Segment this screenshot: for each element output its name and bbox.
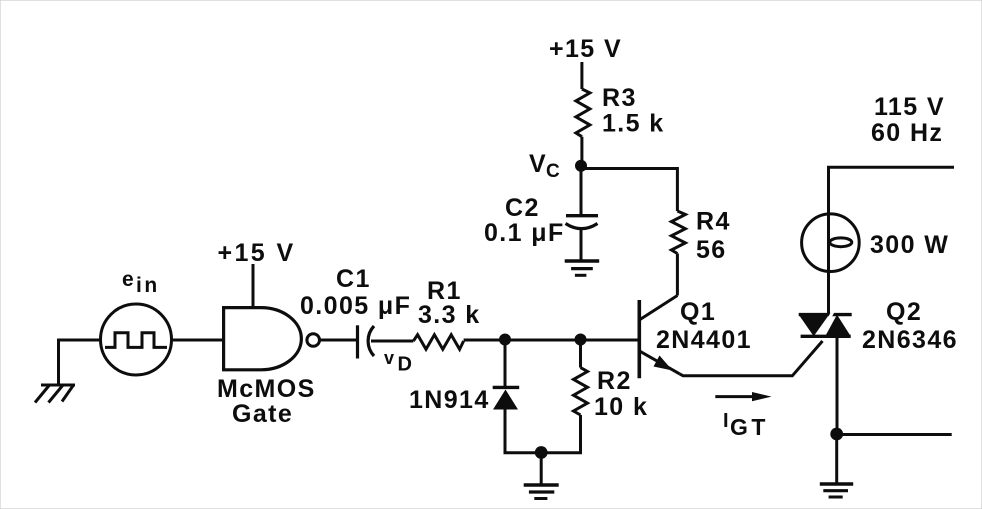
capacitor C2 top wire: [580, 166, 583, 215]
svg-text:0.005 μF: 0.005 μF: [300, 292, 411, 320]
triac Q2 gate gap: [817, 311, 834, 342]
wire AC line top: [829, 167, 955, 214]
wire node C to ground: [540, 453, 543, 485]
label McMOS Gate: [217, 375, 316, 428]
diode D1 1N914: [493, 387, 520, 409]
resistor R4: [671, 211, 685, 254]
ground GND1 (left hatched earth): [35, 385, 75, 403]
wire +15V to gate top: [252, 264, 255, 308]
svg-text:V: V: [529, 150, 547, 178]
arrow I_GT: [715, 392, 771, 401]
wire through lamp: [827, 214, 830, 315]
svg-text:C2: C2: [505, 194, 540, 222]
wire bubble to C1: [320, 339, 356, 342]
diode D1 1N914 anode wire: [504, 340, 507, 387]
ground GND4 (below triac): [820, 484, 853, 497]
label 1N914: [409, 386, 490, 414]
svg-text:+15 V: +15 V: [218, 239, 296, 267]
svg-text:3.3 k: 3.3 k: [418, 301, 481, 329]
wire D1 to bottom junction: [505, 410, 541, 453]
label 0.005 uF: [300, 292, 411, 320]
label e_in: [122, 268, 160, 297]
wire source to gate: [172, 339, 225, 342]
node C (bottom junction dot): [535, 446, 548, 459]
label R1: [427, 277, 462, 305]
svg-text:1.5 k: 1.5 k: [602, 110, 665, 138]
label 10 k: [594, 393, 648, 421]
transistor Q1 base bar: [637, 300, 641, 378]
transistor Q1 emitter arrow: [654, 356, 673, 371]
triac Q2 left triangle: [799, 315, 829, 337]
svg-text:GT: GT: [730, 414, 769, 440]
wire node B to Q1 base: [581, 339, 639, 342]
wire node D to ground: [835, 434, 838, 484]
svg-text:C: C: [546, 161, 561, 182]
label 115 V: [874, 93, 945, 121]
label R2: [597, 367, 632, 395]
wire ground to source: [59, 340, 102, 385]
svg-text:115 V: 115 V: [874, 93, 945, 121]
svg-text:McMOS: McMOS: [217, 375, 316, 403]
capacitor C1: [358, 325, 375, 358]
triac Q2 bottom bar: [801, 335, 851, 338]
svg-text:0.1 μF: 0.1 μF: [484, 219, 565, 247]
svg-text:Q1: Q1: [680, 298, 716, 326]
svg-text:56: 56: [696, 236, 727, 264]
triac Q2 top bar: [799, 313, 852, 316]
node Vc (junction dot): [575, 160, 587, 172]
wire R4 to Q1 collector: [676, 254, 679, 296]
resistor R2 top wire: [579, 340, 582, 368]
transistor Q1 collector lead: [640, 296, 677, 320]
label V_C: [529, 150, 561, 182]
label R4: [696, 208, 731, 236]
label Q1: [680, 298, 716, 326]
svg-text:R3: R3: [602, 84, 637, 112]
svg-text:in: in: [136, 274, 160, 297]
svg-text:D: D: [398, 354, 414, 376]
label +15 V (gate supply): [218, 239, 296, 267]
wire C2 to ground: [580, 229, 583, 261]
lamp LP1 filament ellipse: [830, 238, 852, 247]
resistor R2: [574, 368, 588, 415]
label 56: [696, 236, 727, 264]
svg-text:v: v: [384, 348, 395, 368]
svg-text:I: I: [723, 410, 730, 432]
node A (junction dot): [499, 334, 511, 346]
svg-text:300 W: 300 W: [870, 231, 949, 259]
ground GND3 (below C2): [565, 261, 600, 275]
label 3.3 k: [418, 301, 481, 329]
label 60 Hz: [871, 119, 943, 147]
resistor R1: [413, 335, 463, 350]
svg-text:1N914: 1N914: [409, 386, 490, 414]
svg-text:Q2: Q2: [886, 298, 922, 326]
wire AC line bottom: [837, 433, 952, 436]
triac Q2 right triangle: [825, 315, 851, 337]
svg-text:R4: R4: [696, 208, 731, 236]
label 0.1 uF: [484, 219, 565, 247]
node B (junction dot): [575, 334, 587, 346]
ground GND2 (below D1/R2): [524, 485, 559, 499]
wire R1 to node A: [464, 339, 505, 342]
svg-text:2N4401: 2N4401: [656, 326, 752, 354]
svg-text:+15 V: +15 V: [549, 35, 622, 63]
label v_D: [384, 348, 413, 376]
square wave inside source: [105, 333, 167, 348]
svg-text:Gate: Gate: [232, 400, 293, 428]
label 300 W: [870, 231, 949, 259]
label C2: [505, 194, 540, 222]
label Q2: [886, 298, 922, 326]
label C1: [336, 265, 371, 293]
wire +15V to R3: [580, 62, 583, 89]
wire R3 to node Vc: [580, 137, 583, 166]
gate U1 inversion bubble: [307, 334, 320, 347]
wire node Vc to R4 branch: [581, 169, 677, 212]
resistor R3: [576, 89, 590, 137]
svg-text:10 k: 10 k: [594, 393, 648, 421]
source e_in circle: [101, 304, 172, 375]
transistor Q1 emitter lead: [640, 351, 680, 374]
label 1.5 k: [602, 110, 665, 138]
wire node A to node B: [505, 339, 581, 342]
svg-text:R2: R2: [597, 367, 632, 395]
svg-text:2N6346: 2N6346: [862, 326, 958, 354]
gate U1 (McMOS NAND body): [224, 308, 302, 370]
svg-text:e: e: [122, 268, 135, 291]
lamp LP1 circle: [802, 214, 860, 272]
wire R2 to bottom junction: [541, 415, 581, 453]
wire triac MT1 down: [836, 336, 839, 434]
label 2N6346: [862, 326, 958, 354]
capacitor C2: [566, 216, 599, 229]
label 2N4401: [656, 326, 752, 354]
label R3: [602, 84, 637, 112]
label +15 V (R3 supply): [549, 35, 622, 63]
svg-text:C1: C1: [336, 265, 371, 293]
svg-text:60 Hz: 60 Hz: [871, 119, 943, 147]
label I_GT: [723, 410, 769, 440]
wire C1 to R1: [371, 340, 413, 343]
node D (junction dot): [830, 428, 843, 441]
wire Q1 emitter to triac gate: [680, 341, 823, 376]
